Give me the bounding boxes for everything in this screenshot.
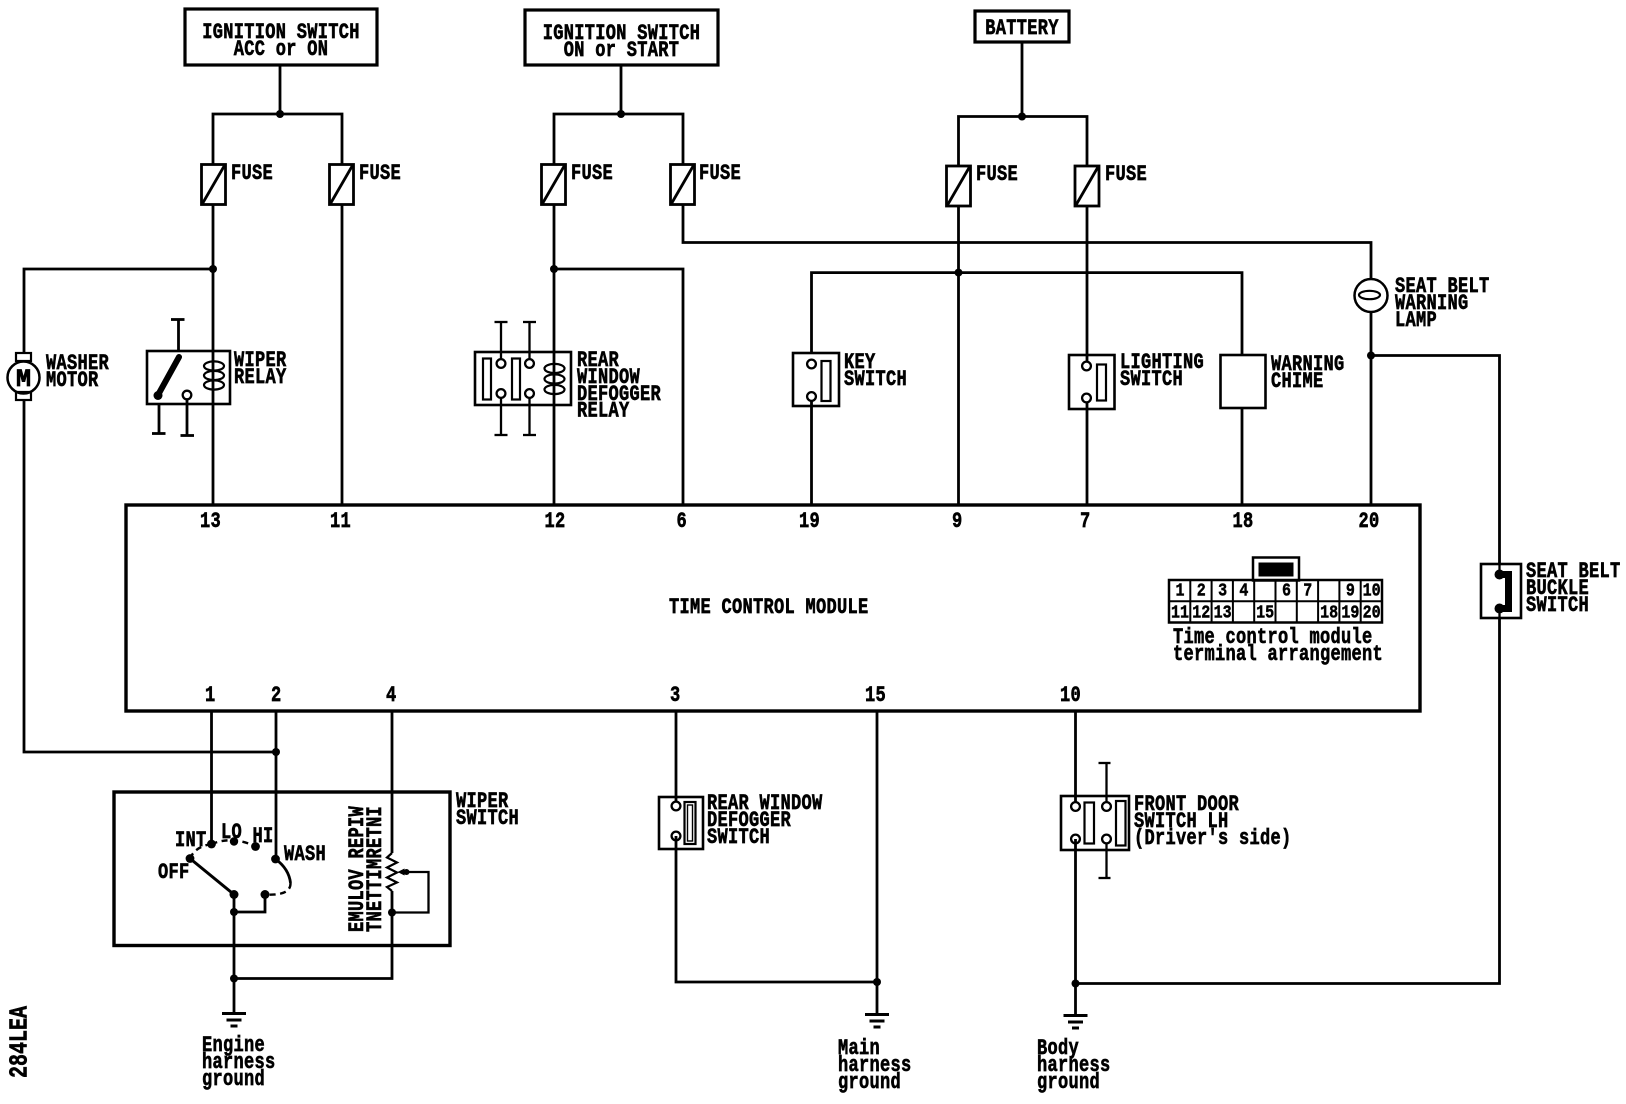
terminal arrangement table	[1169, 580, 1382, 623]
value label FUSE F3	[571, 166, 613, 183]
wire branch to module pin 6	[554, 269, 683, 505]
front door switch sliders	[1085, 801, 1126, 846]
wire bus key switch to warning chime	[812, 273, 1243, 355]
label WASHER MOTOR	[46, 356, 109, 390]
value label FUSE F2	[359, 166, 401, 183]
label AEL482 (rotated)	[11, 1006, 31, 1078]
wiper switch lever	[190, 859, 234, 895]
wire junction bus to fuses	[554, 114, 683, 165]
lighting switch S2 box	[1069, 355, 1115, 409]
warning chime U1 box	[1221, 355, 1266, 408]
wiper switch dashed selector arc	[190, 840, 256, 858]
wiper relay coil	[204, 361, 224, 389]
defogger relay contact bar 2	[512, 359, 520, 400]
junction pivot output	[230, 908, 238, 916]
terminal arrangement connector key	[1253, 558, 1299, 581]
label IGNITION SWITCH ACC or ON	[185, 25, 377, 59]
wire down to main ground	[876, 982, 879, 1015]
wire fuse F3 to module pin 12	[553, 205, 556, 506]
washer motor M1	[8, 353, 40, 400]
box IGNITION SWITCH ACC or ON	[185, 9, 377, 65]
wire fuse F2 to module pin 11	[341, 205, 344, 506]
junction engine ground node	[230, 975, 238, 983]
label INTERMITTENT (rotated)	[368, 805, 385, 931]
junction key-switch bus	[955, 269, 963, 277]
wiper switch pivot contacts	[230, 890, 270, 899]
box IGNITION SWITCH ON or START	[525, 10, 718, 65]
wire key switch to module pin 19	[810, 401, 813, 505]
pin number 4	[386, 688, 397, 705]
pin number 20	[1359, 514, 1380, 531]
junction pin6 branch	[550, 265, 558, 273]
defogger relay pin circles	[497, 359, 534, 398]
label Engine harness ground	[202, 1038, 276, 1089]
key switch S1 box	[793, 353, 839, 406]
wiper switch pivot link	[234, 895, 265, 913]
time control module box	[126, 505, 1420, 711]
box BATTERY	[975, 11, 1069, 42]
node label OFF	[158, 865, 190, 882]
wire down to body ground	[1074, 984, 1077, 1016]
defogger switch slider	[685, 802, 696, 844]
wire module pin 10 to front door switch	[1074, 711, 1077, 807]
wire washer motor down to pin2 net	[24, 400, 276, 752]
label KEY SWITCH	[844, 355, 907, 389]
seat belt warning lamp L1	[1355, 279, 1388, 312]
wiper switch S4 box	[114, 792, 450, 946]
wire down to engine ground	[233, 979, 236, 1014]
front door switch contacts	[1071, 802, 1111, 843]
node label LO	[221, 825, 242, 842]
wiper relay switch lever	[154, 357, 180, 400]
value label FUSE F4	[699, 166, 741, 183]
wiper switch contact OFF	[186, 854, 195, 863]
intermittent wiper volume resistor R1	[387, 853, 397, 891]
defogger relay contact bar 1	[483, 359, 491, 400]
node label INT	[175, 833, 207, 850]
label REAR WINDOW DEFOGGER SWITCH	[707, 796, 823, 847]
pin number 18	[1233, 514, 1254, 531]
wire module pin 2 to wiper switch WASH	[275, 711, 278, 859]
label FRONT DOOR SWITCH LH	[1134, 797, 1292, 848]
defogger switch contacts	[672, 802, 681, 841]
key switch slider	[822, 361, 831, 401]
junction	[1018, 113, 1026, 121]
seat belt buckle switch S3 box	[1481, 564, 1521, 618]
wire module pin 3 to defogger switch	[675, 711, 678, 806]
fuse F5	[947, 166, 971, 206]
lighting switch slider	[1097, 365, 1106, 401]
wiper relay pin top	[171, 320, 185, 352]
front door switch S6 box	[1061, 796, 1129, 850]
label Body harness ground	[1037, 1041, 1111, 1092]
wiper switch wash curve	[265, 859, 291, 895]
label WIPER VOLUME (rotated)	[350, 805, 367, 931]
body harness ground symbol	[1064, 1016, 1088, 1029]
wire lamp to module pin 20	[1370, 312, 1373, 505]
lighting switch contacts	[1082, 362, 1091, 403]
pin number 7	[1080, 514, 1091, 531]
wire fuse F6 through lighting switch to module pin 7	[1086, 206, 1089, 505]
label Main harness ground	[838, 1041, 912, 1092]
junction lamp to buckle	[1367, 352, 1375, 360]
wire pivot to engine ground	[233, 912, 236, 979]
wire resistor to common	[234, 891, 392, 979]
wire branch to washer motor	[24, 269, 213, 354]
label BATTERY	[975, 21, 1069, 38]
label WIPER SWITCH	[456, 794, 519, 828]
node label WASH	[284, 847, 326, 864]
junction body ground node	[1072, 980, 1080, 988]
wire defogger switch to main ground net	[676, 836, 877, 982]
wiper switch contact HI	[251, 842, 260, 851]
wire ignition1 to junction	[279, 65, 282, 114]
junction	[617, 110, 625, 118]
wiper switch contact LO	[230, 837, 238, 845]
wire buckle switch to body ground net	[1076, 618, 1500, 984]
pin number 1	[205, 688, 216, 705]
label WARNING CHIME	[1271, 357, 1345, 391]
fuse F1	[202, 165, 226, 205]
fuse F2	[330, 165, 354, 205]
rear window defogger relay K2 box	[475, 352, 571, 405]
wire junction bus to fuses	[959, 117, 1088, 167]
wire ignition2 to junction	[620, 65, 623, 114]
junction node washer branch	[209, 265, 217, 273]
fuse F4	[671, 165, 695, 205]
defogger relay pin bottom 2	[523, 397, 536, 435]
node label HI	[253, 829, 274, 846]
defogger relay pin bottom 1	[495, 397, 508, 435]
label WIPER RELAY	[234, 353, 287, 387]
key switch contacts	[807, 360, 816, 401]
label LIGHTING SWITCH	[1120, 355, 1204, 389]
wire to seat belt buckle switch	[1371, 356, 1500, 565]
terminal table row 2 numbers	[1170, 606, 1191, 621]
pin number 9	[952, 514, 963, 531]
wire battery to junction	[1021, 42, 1024, 117]
label TIME CONTROL MODULE	[669, 600, 869, 617]
junction	[276, 110, 284, 118]
wire fuse F5 to module pin 9	[957, 206, 960, 505]
junction on pin 2 wire	[272, 748, 280, 756]
wiper relay pin bottom 2	[181, 400, 195, 436]
pin number 2	[271, 688, 282, 705]
engine harness ground symbol	[222, 1014, 246, 1027]
rear window defogger switch S5 box	[659, 797, 703, 849]
junction wiper arm return	[388, 909, 396, 917]
wire junction bus to fuses	[213, 114, 342, 165]
pin number 12	[545, 514, 566, 531]
label SEAT BELT WARNING LAMP	[1395, 279, 1490, 330]
wiper arm of potentiometer	[392, 869, 429, 913]
value label FUSE F5	[976, 167, 1018, 184]
pin number 10	[1060, 688, 1081, 705]
pin number 11	[330, 514, 351, 531]
fuse F6	[1075, 166, 1099, 206]
wire front door switch to body ground net	[1074, 839, 1077, 984]
defogger relay coil	[545, 364, 565, 394]
pin number 15	[865, 688, 886, 705]
defogger relay pin top 1	[495, 322, 508, 360]
terminal table row 1 numbers	[1170, 584, 1191, 599]
front door switch pin bottom	[1099, 843, 1111, 878]
pin number 13	[200, 514, 221, 531]
wire module pin 15 down	[876, 711, 879, 982]
wiper relay K1 box	[147, 351, 230, 404]
main harness ground symbol	[865, 1015, 889, 1028]
label REAR WINDOW DEFOGGER RELAY	[577, 353, 661, 421]
label IGNITION SWITCH ON or START	[525, 26, 718, 60]
svg-text:M: M	[16, 365, 31, 394]
fuse F3	[542, 165, 566, 205]
wire module pin 4 to intermittent wiper volume	[391, 711, 394, 853]
pin number 6	[677, 514, 688, 531]
label SEAT BELT BUCKLE SWITCH	[1526, 564, 1621, 615]
wiper switch contact INT	[207, 840, 216, 849]
front door switch pin top	[1099, 763, 1111, 802]
wire fuse F1 to module pin 13	[212, 205, 215, 506]
wiper switch contact WASH	[271, 855, 280, 864]
pin number 3	[670, 688, 681, 705]
wire warning chime to module pin 18	[1241, 408, 1244, 505]
defogger relay pin top 2	[523, 322, 536, 360]
wiper relay pin bottom 1	[152, 404, 166, 434]
value label FUSE F1	[231, 166, 273, 183]
wire fuse F4 to seat belt lamp	[683, 205, 1371, 280]
wire module pin 1 to wiper switch INT	[210, 711, 213, 844]
junction main ground node	[873, 978, 881, 986]
seat belt buckle switch contact	[1495, 564, 1509, 618]
pin number 19	[799, 514, 820, 531]
wiper relay contact	[183, 391, 192, 400]
value label FUSE F6	[1105, 167, 1147, 184]
label Time control module terminal arrangement	[1173, 630, 1383, 664]
